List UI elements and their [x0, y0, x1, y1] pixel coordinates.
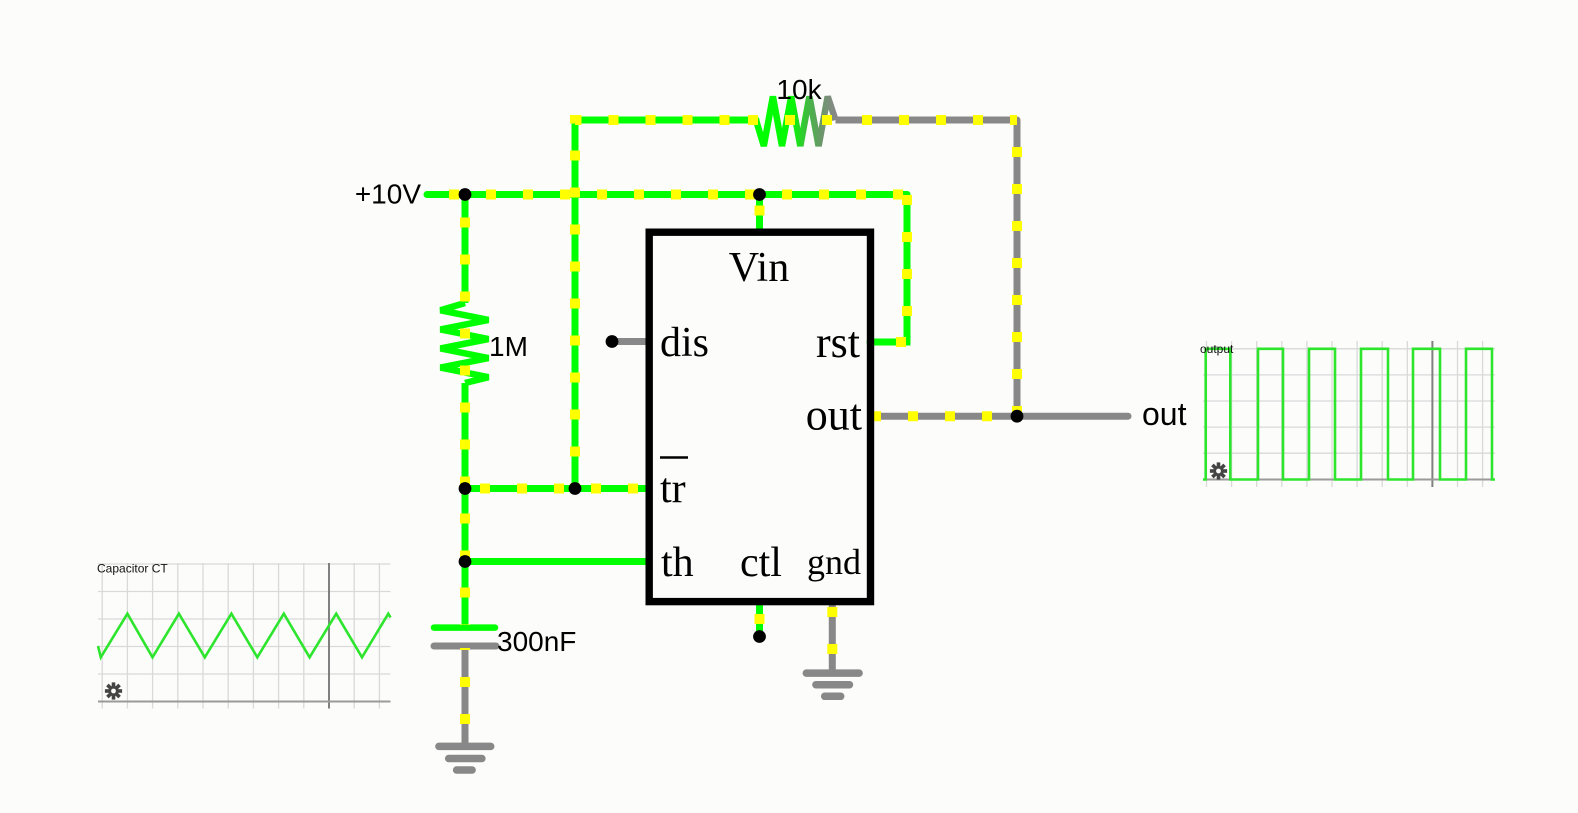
- svg-text:300nF: 300nF: [497, 626, 576, 657]
- ground G2 (chip gnd): [806, 673, 859, 696]
- dashes +10V wire: [427, 190, 907, 200]
- dashes loop vertical: [575, 120, 756, 489]
- svg-text:ctl: ctl: [740, 540, 782, 586]
- wire rst elbow: [870, 195, 907, 343]
- wire 1M to capacitor: [462, 383, 469, 625]
- wire left loop vertical: [575, 120, 756, 489]
- node dis endpoint: [606, 335, 619, 348]
- svg-text:output: output: [1200, 342, 1234, 356]
- scope2 baseline: [1203, 479, 1495, 481]
- node Vin junction: [753, 188, 766, 201]
- pin tr overline: [660, 456, 688, 459]
- dashes right vertical: [1012, 120, 1022, 416]
- wire capacitor to ground: [462, 648, 469, 743]
- svg-text:Vin: Vin: [729, 245, 789, 291]
- wire +10V horizontal: [427, 191, 907, 198]
- scope1 baseline: [98, 701, 391, 703]
- capacitor top plate: [434, 624, 495, 631]
- svg-text:out: out: [1142, 396, 1187, 432]
- scope2 t-line: [1431, 341, 1433, 487]
- ground G1 (capacitor): [439, 746, 491, 770]
- wire node +10V to 1M: [462, 195, 469, 304]
- scope1 gear icon: [101, 679, 125, 703]
- resistor R1 10k: [756, 97, 836, 147]
- dashes top gray: [836, 115, 1017, 125]
- scope2 trace square wave: [1203, 349, 1495, 480]
- wire 10k to right corner: [836, 120, 1018, 416]
- node tr junction mid: [569, 482, 582, 495]
- scope2 grid: [1203, 341, 1495, 487]
- svg-text:10k: 10k: [776, 74, 822, 105]
- wire tr horizontal: [465, 485, 648, 492]
- capacitor bottom plate: [434, 643, 496, 650]
- dashes tr wire: [465, 484, 648, 494]
- wire out label: [1017, 413, 1128, 420]
- node th junction: [459, 555, 472, 568]
- node tr junction left: [459, 482, 472, 495]
- dashes 10k resistor axis: [748, 115, 838, 125]
- svg-text:rst: rst: [816, 318, 860, 367]
- dashes rst elbow: [870, 195, 907, 343]
- svg-text:tr: tr: [660, 466, 686, 512]
- svg-text:dis: dis: [660, 320, 709, 366]
- wire out from chip: [871, 413, 1017, 420]
- wire Vin stub: [756, 195, 763, 233]
- dashes out wire: [871, 411, 1017, 421]
- svg-text:th: th: [661, 540, 694, 586]
- wire dis stub: [612, 338, 648, 345]
- svg-text:Capacitor CT: Capacitor CT: [97, 562, 168, 576]
- scope1 t-line: [328, 563, 330, 709]
- svg-text:1M: 1M: [489, 331, 528, 362]
- dashes left vertical chain: [460, 195, 470, 626]
- wire th horizontal: [465, 558, 648, 565]
- svg-text:+10V: +10V: [355, 179, 421, 210]
- svg-text:out: out: [806, 391, 862, 440]
- dashes Vin stub: [755, 195, 765, 233]
- wire chip gnd stub: [829, 602, 836, 670]
- node +10V junction: [459, 188, 472, 201]
- node ctl endpoint: [753, 630, 766, 643]
- wire ctl stub: [756, 602, 763, 632]
- node out junction: [1011, 410, 1024, 423]
- chip pin labels: [660, 245, 862, 586]
- dashes cap to ground: [460, 648, 470, 743]
- scope1 grid: [98, 563, 391, 709]
- op-amp/chip U1 555 timer box: [649, 232, 870, 601]
- resistor R2 1M: [441, 303, 489, 383]
- dashes gnd stub: [827, 602, 837, 670]
- scope2 gear icon: [1206, 459, 1230, 483]
- dashes ctl stub: [755, 602, 765, 632]
- scope1 trace sawtooth: [98, 614, 391, 658]
- svg-text:gnd: gnd: [807, 542, 861, 582]
